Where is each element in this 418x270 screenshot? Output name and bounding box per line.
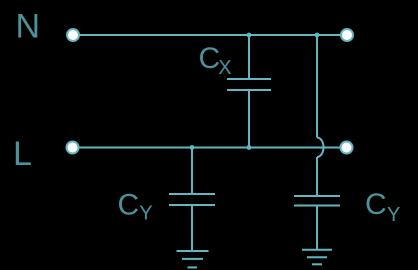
junction N-CX xyxy=(247,33,252,38)
terminal L right xyxy=(341,142,353,154)
terminal N left xyxy=(67,29,79,41)
svg-text:Y: Y xyxy=(387,204,400,226)
wire hop over L line xyxy=(317,138,324,158)
svg-text:C: C xyxy=(365,188,387,221)
label CY right xyxy=(365,188,400,226)
terminal N right xyxy=(341,29,353,41)
wire L line xyxy=(80,147,341,149)
svg-text:Y: Y xyxy=(139,202,152,224)
svg-text:N: N xyxy=(16,8,41,46)
junction L-CX xyxy=(247,145,252,150)
capacitor CX xyxy=(227,35,271,148)
label CX xyxy=(199,42,232,79)
label CY left xyxy=(118,189,153,225)
svg-text:X: X xyxy=(218,57,231,79)
capacitor CY left xyxy=(169,148,215,251)
wire N to CY right (vertical) xyxy=(316,35,318,138)
wire N line xyxy=(80,34,341,36)
svg-text:L: L xyxy=(13,135,32,173)
junction L-CY left xyxy=(190,145,195,150)
ground right xyxy=(302,250,332,264)
capacitor CY right xyxy=(294,157,340,250)
junction N-right branch xyxy=(315,33,320,38)
svg-text:C: C xyxy=(118,189,140,222)
ground left xyxy=(177,251,209,267)
svg-text:C: C xyxy=(199,42,221,75)
terminal L left xyxy=(67,142,79,154)
